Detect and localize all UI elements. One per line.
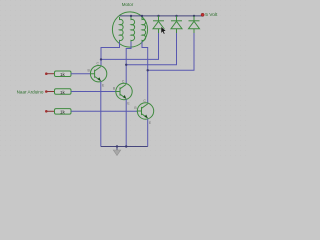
diode D2 bbox=[171, 16, 182, 33]
wire Q1 emitter to ground rail bbox=[100, 82, 102, 147]
node junction Q1 collector bbox=[100, 58, 102, 60]
motor M1 bbox=[112, 12, 147, 47]
transistor Q2 bbox=[113, 79, 132, 105]
svg-text:5 Volt: 5 Volt bbox=[205, 12, 218, 18]
wire ground rail bbox=[101, 146, 148, 148]
transistor Q3 bbox=[134, 99, 153, 125]
node junction Q3 collector bbox=[147, 69, 149, 71]
node input pin 1 bbox=[45, 72, 48, 75]
node junction Q2 emitter ground bbox=[125, 145, 127, 147]
wire R1 to Q1 base bbox=[71, 73, 90, 75]
wire input lead R3 bbox=[46, 110, 54, 112]
ground bbox=[113, 147, 120, 156]
node junction motor tap mid bbox=[130, 15, 132, 17]
svg-text:Motor: Motor bbox=[122, 2, 134, 7]
resistor R3 bbox=[55, 109, 72, 115]
node junction ground tap bbox=[116, 145, 118, 147]
wire R2 to Q2 base bbox=[71, 91, 116, 93]
wire motor coil2 to Q2 collector bbox=[126, 42, 131, 84]
node junction rail D2 bbox=[175, 15, 177, 17]
wire D1 anode to Q1 collector bbox=[101, 33, 159, 59]
wire 5V rail bbox=[120, 15, 203, 17]
node junction rail D3 bbox=[193, 15, 195, 17]
wire Q2 emitter to ground rail bbox=[125, 99, 127, 146]
mouse cursor bbox=[161, 27, 166, 35]
wire R3 to Q3 base bbox=[71, 110, 137, 112]
transistor Q1 bbox=[88, 62, 107, 88]
svg-text:1k: 1k bbox=[60, 72, 66, 77]
svg-text:Naar Arduino: Naar Arduino bbox=[17, 90, 44, 95]
diode D3 bbox=[189, 16, 200, 33]
wire input lead R2 bbox=[46, 91, 54, 93]
diode D1 bbox=[153, 16, 164, 33]
resistor R2 bbox=[55, 89, 72, 95]
node 5 Volt terminal bbox=[201, 13, 204, 16]
resistor R1 bbox=[55, 71, 72, 77]
wire motor coil1 to Q1 collector bbox=[101, 42, 120, 66]
wire Q3 emitter to ground rail bbox=[147, 119, 149, 147]
node junction Q2 collector bbox=[125, 64, 127, 66]
svg-text:1k: 1k bbox=[60, 110, 66, 115]
wire input lead R1 bbox=[46, 73, 54, 75]
node junction motor tap right bbox=[141, 15, 143, 17]
node input pin 3 bbox=[45, 110, 48, 113]
wire D2 anode to Q2 collector bbox=[126, 33, 176, 65]
wire D3 anode to Q3 collector bbox=[148, 33, 194, 70]
svg-text:1k: 1k bbox=[60, 90, 66, 95]
node junction rail D1 bbox=[157, 15, 159, 17]
node input pin 2 bbox=[45, 90, 48, 93]
wire motor coil3 to Q3 collector bbox=[142, 42, 148, 103]
